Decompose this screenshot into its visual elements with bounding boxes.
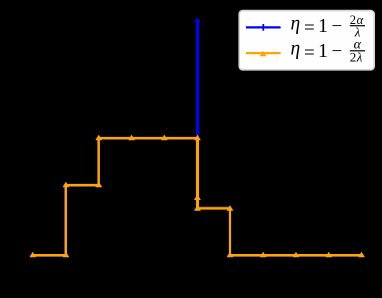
svg-text:−: − [332,41,343,62]
svg-text:2λ: 2λ [350,49,363,64]
legend row1 text: eta = 1 - 2a/lambda [291,13,366,39]
svg-text:1: 1 [318,40,328,62]
legend row2 text: eta = 1 - a/2lambda [291,37,366,64]
blue spike at x=197 [196,21,199,209]
legend orange triangle marker [260,51,267,57]
svg-text:η: η [291,39,301,60]
svg-text:=: = [304,18,315,39]
legend blue plus marker [260,24,267,31]
blue step curve (eta = 1 - 2a/l) [32,139,361,256]
orange step curve (eta = 1 - a/2l) [33,138,362,255]
legend box [239,11,374,70]
orange wide vertical over blue spike [196,138,199,209]
svg-text:=: = [304,43,315,64]
legend orange sample line [246,52,281,54]
svg-text:−: − [332,16,343,37]
legend blue sample line [246,26,281,28]
orange triangle markers [29,135,365,258]
svg-text:η: η [291,14,301,35]
svg-text:1: 1 [318,15,328,37]
blue plus markers [29,18,364,257]
blue upper fringe segment [197,207,230,209]
